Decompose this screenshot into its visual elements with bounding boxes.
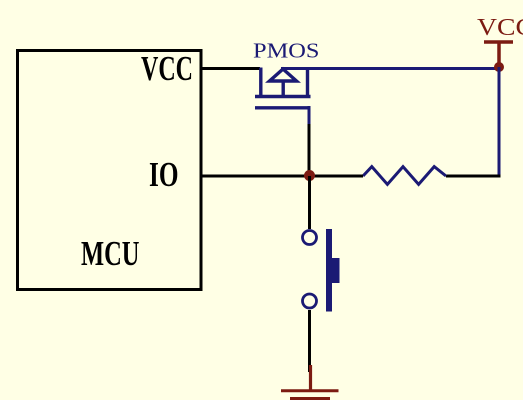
svg-text:VCC: VCC (477, 15, 523, 41)
wire junction down to button (308, 176, 311, 229)
ground symbol (281, 391, 339, 399)
channel bar (255, 95, 311, 99)
arrow triangle (270, 69, 297, 81)
MCU box U1 (18, 51, 202, 290)
node VCC junction dot (494, 62, 504, 72)
wire button to ground (308, 310, 311, 372)
power rail VCC symbol (477, 15, 523, 66)
button terminal circle top (303, 231, 317, 245)
wire MCU IO pin to resistor left end (202, 175, 363, 178)
wire MCU VCC pin to PMOS source (202, 67, 260, 70)
gate bar (255, 106, 310, 109)
button actuator bar (326, 229, 332, 312)
svg-text:MCU: MCU (81, 234, 140, 273)
wire right rail down from VCC node (498, 67, 501, 176)
svg-text:VCC: VCC (141, 49, 193, 88)
ground bar 2 (290, 397, 330, 400)
svg-text:PMOS: PMOS (253, 39, 320, 63)
node A junction dot (304, 170, 315, 181)
resistor R1 (363, 167, 446, 185)
button terminal circle bottom (303, 294, 317, 308)
push button S1 (303, 229, 340, 312)
drain lead vertical (306, 68, 309, 96)
wire PMOS drain to VCC node (281, 67, 497, 70)
VCC rail bar (484, 40, 513, 44)
ground bar 1 (281, 389, 339, 392)
VCC rail stem (497, 42, 501, 66)
source lead vertical (259, 68, 262, 96)
svg-text:IO: IO (149, 155, 179, 194)
transistor Q1 PMOS (255, 68, 311, 108)
arrow stem (282, 81, 285, 95)
wire resistor right end to rail (446, 175, 501, 178)
button actuator bump (332, 258, 340, 283)
wire PMOS gate down to junction (308, 106, 311, 126)
